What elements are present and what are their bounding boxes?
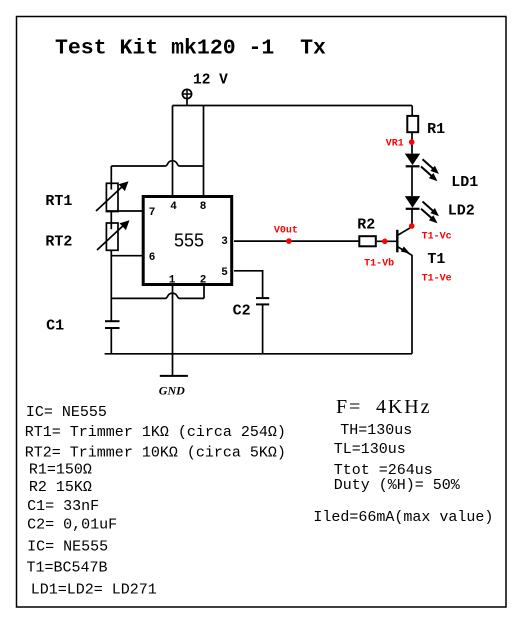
svg-text:F= 4KHz: F= 4KHz xyxy=(336,396,431,418)
svg-text:VR1: VR1 xyxy=(386,139,404,150)
svg-text:R1=150Ω: R1=150Ω xyxy=(29,462,92,479)
svg-text:C2: C2 xyxy=(233,303,251,320)
svg-text:3: 3 xyxy=(221,236,228,248)
svg-text:555: 555 xyxy=(174,231,204,251)
svg-text:12 V: 12 V xyxy=(193,73,228,89)
svg-text:T1=BC547B: T1=BC547B xyxy=(27,559,108,576)
svg-text:IC= NE555: IC= NE555 xyxy=(26,404,107,421)
svg-text:GND: GND xyxy=(159,383,185,397)
svg-text:R2 15KΩ: R2 15KΩ xyxy=(29,479,92,496)
svg-text:T1: T1 xyxy=(427,251,445,268)
svg-text:TH=130us: TH=130us xyxy=(340,422,412,439)
svg-text:1: 1 xyxy=(169,274,176,286)
svg-text:7: 7 xyxy=(149,207,156,219)
svg-text:8: 8 xyxy=(200,201,207,213)
svg-text:LD2: LD2 xyxy=(448,203,475,220)
svg-text:T1-Vc: T1-Vc xyxy=(422,232,452,243)
svg-text:RT1= Trimmer 1KΩ (circa 254Ω): RT1= Trimmer 1KΩ (circa 254Ω) xyxy=(25,424,286,441)
svg-text:RT1: RT1 xyxy=(45,193,72,210)
svg-text:C1: C1 xyxy=(46,318,64,335)
svg-text:2: 2 xyxy=(200,274,207,286)
svg-text:V0ut: V0ut xyxy=(274,225,298,236)
svg-text:IC= NE555: IC= NE555 xyxy=(27,539,108,556)
svg-text:Duty (%H)= 50%: Duty (%H)= 50% xyxy=(334,477,461,494)
svg-text:T1-Ve: T1-Ve xyxy=(422,274,452,285)
svg-text:RT2= Trimmer 10KΩ (circa 5KΩ): RT2= Trimmer 10KΩ (circa 5KΩ) xyxy=(25,444,286,461)
svg-text:5: 5 xyxy=(221,267,228,279)
svg-text:6: 6 xyxy=(149,252,156,264)
svg-text:Iled=66mA(max value): Iled=66mA(max value) xyxy=(313,509,493,526)
svg-text:RT2: RT2 xyxy=(45,234,72,251)
svg-text:Test Kit mk120 -1 Tx: Test Kit mk120 -1 Tx xyxy=(55,36,326,60)
svg-text:R1: R1 xyxy=(427,121,445,138)
svg-text:R2: R2 xyxy=(357,217,375,234)
svg-text:LD1=LD2= LD271: LD1=LD2= LD271 xyxy=(31,581,157,598)
svg-text:C2= 0,01uF: C2= 0,01uF xyxy=(27,517,117,534)
svg-text:C1= 33nF: C1= 33nF xyxy=(27,498,99,515)
svg-text:TL=130us: TL=130us xyxy=(334,441,406,458)
svg-text:T1-Vb: T1-Vb xyxy=(364,258,394,270)
svg-text:LD1: LD1 xyxy=(451,174,478,191)
svg-text:4: 4 xyxy=(170,201,177,213)
